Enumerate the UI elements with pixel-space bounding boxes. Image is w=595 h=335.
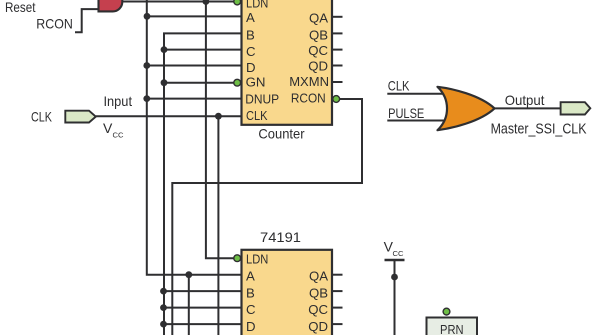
svg-text:QA: QA bbox=[309, 10, 328, 25]
svg-text:Input: Input bbox=[104, 93, 133, 109]
svg-text:QB: QB bbox=[309, 27, 328, 42]
svg-text:LDN: LDN bbox=[246, 252, 268, 267]
connector Master_SSI_CLK output bbox=[561, 102, 591, 114]
pin stub QA bbox=[332, 16, 343, 18]
svg-text:CC: CC bbox=[393, 249, 405, 258]
wire: CLK input to counter CLK pin bbox=[96, 115, 242, 117]
wire: counter C pin bbox=[164, 49, 242, 51]
svg-text:DNUP: DNUP bbox=[245, 91, 279, 106]
pin stub QD bbox=[332, 65, 343, 67]
svg-text:D: D bbox=[246, 319, 256, 334]
junction on Vcc line bbox=[391, 274, 398, 281]
wire: vertical bus line L2 (B/C/GN net) from counter B down bbox=[164, 33, 242, 335]
svg-text:QB: QB bbox=[309, 285, 328, 300]
svg-text:B: B bbox=[246, 285, 255, 300]
wire: OR gate output bbox=[495, 107, 561, 109]
svg-text:V: V bbox=[103, 120, 113, 136]
pin stub MXMN bbox=[332, 81, 343, 83]
junction on A net bbox=[144, 13, 151, 20]
junction on CLK net bbox=[215, 113, 222, 120]
svg-text:LDN: LDN bbox=[246, 0, 268, 10]
pin stub QC bbox=[332, 49, 343, 51]
pin stub QC U2 bbox=[332, 307, 343, 309]
wire: counter A pin bbox=[147, 15, 242, 17]
wire: vertical bus line L4 (CLK net) bbox=[217, 116, 219, 335]
pin stub QD U2 bbox=[332, 323, 343, 325]
and-gate U3 (red, cropped at top) bbox=[99, 0, 123, 11]
wire: counter DNUP pin bbox=[147, 98, 242, 100]
svg-text:QC: QC bbox=[308, 302, 328, 317]
svg-text:Master_SSI_CLK: Master_SSI_CLK bbox=[491, 122, 587, 138]
bubble GN U1 bbox=[234, 79, 241, 86]
svg-text:B: B bbox=[246, 28, 255, 43]
flip-flop PRN box bbox=[427, 318, 478, 335]
junction on DNUP net bbox=[143, 95, 150, 102]
svg-text:QD: QD bbox=[308, 319, 328, 334]
svg-text:C: C bbox=[246, 302, 256, 317]
svg-text:C: C bbox=[246, 44, 256, 59]
wire: RCON label to AND gate input bbox=[75, 9, 99, 32]
svg-text:CLK: CLK bbox=[31, 109, 53, 125]
label Vcc (left) bbox=[103, 120, 124, 140]
wire: lower counter B pin bbox=[164, 290, 242, 292]
bubble LDN U2 bbox=[234, 255, 241, 262]
svg-text:D: D bbox=[246, 60, 256, 75]
bubble LDN U1 bbox=[234, 0, 241, 5]
junction on D net bbox=[143, 62, 150, 69]
wire: OR gate CLK input bbox=[387, 93, 450, 95]
svg-text:QA: QA bbox=[309, 269, 328, 284]
wire: vertical bus line L1 (A/D/DNUP net) down to lower counter A bbox=[147, 0, 242, 275]
or-gate U4 (orange) bbox=[438, 87, 495, 130]
svg-text:QD: QD bbox=[308, 59, 328, 74]
svg-text:RCON: RCON bbox=[291, 91, 326, 106]
pin stub QA U2 bbox=[332, 274, 343, 276]
junction on C net bbox=[161, 46, 168, 53]
connector CLK input bbox=[65, 111, 96, 123]
wire: lower counter D pin bbox=[164, 323, 242, 325]
svg-text:A: A bbox=[246, 10, 255, 25]
svg-text:Reset: Reset bbox=[5, 0, 36, 15]
svg-text:A: A bbox=[246, 269, 255, 284]
wire: counter GN pin bbox=[164, 82, 234, 84]
wire: counter D pin bbox=[147, 65, 242, 67]
svg-text:PULSE: PULSE bbox=[388, 105, 424, 121]
svg-text:CLK: CLK bbox=[388, 78, 410, 94]
wire: AND gate output to counter LDN bbox=[120, 1, 235, 3]
svg-text:GN: GN bbox=[246, 75, 266, 90]
junction lower C net bbox=[160, 304, 167, 311]
svg-text:Output: Output bbox=[505, 92, 545, 108]
counter U1 (upper Counter block) bbox=[242, 0, 333, 125]
wire: vertical bus line L5 from lower counter A down bbox=[188, 275, 190, 335]
svg-text:PRN: PRN bbox=[440, 322, 464, 335]
junction lower B net bbox=[160, 288, 167, 295]
svg-text:Counter: Counter bbox=[258, 126, 305, 142]
junction lower D net bbox=[160, 321, 167, 328]
svg-text:74191: 74191 bbox=[260, 229, 301, 245]
bubble RCON U1 bbox=[333, 96, 340, 103]
svg-text:QC: QC bbox=[308, 43, 328, 58]
wire: OR gate PULSE input bbox=[387, 120, 450, 122]
junction lower A net bbox=[185, 271, 192, 278]
wire: lower counter C pin bbox=[164, 307, 242, 309]
svg-text:MXMN: MXMN bbox=[289, 74, 329, 89]
wire: vertical bus line L3 (LDN net) to lower counter LDN bbox=[206, 2, 235, 259]
pin stub QB U2 bbox=[332, 290, 343, 292]
counter U2 (74191 block) bbox=[242, 250, 333, 335]
junction on GN net bbox=[161, 79, 168, 86]
svg-text:RCON: RCON bbox=[36, 15, 73, 31]
pin stub QB bbox=[332, 32, 343, 34]
svg-text:CLK: CLK bbox=[246, 108, 268, 123]
junction on LDN net bbox=[203, 0, 210, 5]
bubble PRN bbox=[443, 308, 450, 315]
svg-text:CC: CC bbox=[113, 131, 125, 140]
wire: RCON net from counter RCON output down-left bbox=[172, 99, 362, 335]
power Vcc symbol bbox=[384, 238, 405, 335]
